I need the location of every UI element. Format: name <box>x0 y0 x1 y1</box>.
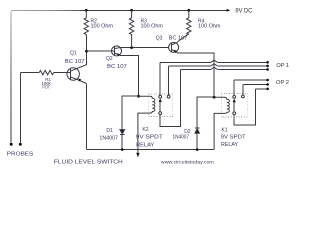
wire K2 common to OP1 line 3 <box>160 69 180 126</box>
probe 1 tip <box>10 143 13 146</box>
OP1 terminal dots <box>266 61 269 64</box>
transistor Q1 BC107 <box>67 65 87 84</box>
svg-text:Q2: Q2 <box>106 56 113 62</box>
probe 2 tip <box>19 143 22 146</box>
svg-text:9V SPDT: 9V SPDT <box>221 134 246 140</box>
relay K1 contact circles <box>233 96 236 99</box>
relay K2 contact risers to OP1 <box>159 62 161 95</box>
diode D2 1N4007 <box>195 97 214 149</box>
wire R1 to Q1 base <box>54 72 71 74</box>
node R3 bottom junction <box>130 46 133 49</box>
relay K2 common contact circle <box>159 112 162 115</box>
svg-text:www.circuitstoday.com: www.circuitstoday.com <box>161 159 214 164</box>
svg-text:Q3: Q3 <box>156 36 163 42</box>
relay K1 armature <box>233 101 235 112</box>
svg-text:BC 107: BC 107 <box>107 64 127 70</box>
wire R2 to Q1 collector <box>85 36 87 65</box>
resistor R3 100 Ohm <box>129 10 133 47</box>
resistor R2 100 Ohm <box>84 10 88 35</box>
node K2 coil top junction <box>137 95 140 98</box>
relay K1 coil <box>214 97 229 149</box>
wire left frame / probe 1 <box>10 13 12 143</box>
relay K2 coil <box>138 96 155 153</box>
node K1 coil top junction <box>213 96 216 99</box>
relay K2 contact circles <box>159 95 162 98</box>
svg-text:POT: POT <box>42 84 50 89</box>
ground arrow (negative lead) <box>136 153 139 158</box>
svg-text:1N4007: 1N4007 <box>173 135 190 141</box>
svg-text:1N4007: 1N4007 <box>99 135 118 141</box>
node Q2 base junction <box>85 50 88 53</box>
resistor R1 100K POT <box>39 70 54 74</box>
relay K1 dashed case <box>221 93 247 117</box>
node D2 bottom junction <box>196 148 199 151</box>
svg-text:9V SPDT: 9V SPDT <box>136 135 163 141</box>
relay K2 armature <box>159 101 161 112</box>
wire K1 common to OP2 line 3 <box>234 89 255 125</box>
wire node to Q2 base <box>87 50 115 52</box>
wire bottom negative rail <box>87 149 215 151</box>
relay K2 dashed case <box>148 94 173 116</box>
wire OP1 line 3 with hop <box>180 68 266 70</box>
wire probe 2 riser <box>19 73 21 143</box>
node D1 bottom junction <box>121 148 124 151</box>
svg-text:OP 2: OP 2 <box>276 80 289 86</box>
svg-text:9V DC: 9V DC <box>235 7 252 14</box>
svg-text:100 Ohm: 100 Ohm <box>141 24 164 30</box>
node R4 top junction <box>187 9 190 12</box>
OP2 terminal dots <box>266 79 269 82</box>
wire probe2 to R1 <box>20 72 39 74</box>
wire OP2 line 1 <box>234 79 266 81</box>
svg-text:Q1: Q1 <box>70 50 77 56</box>
label R1 100K POT <box>42 77 52 89</box>
svg-text:PROBES: PROBES <box>7 152 34 158</box>
svg-text:K1: K1 <box>221 128 227 134</box>
diode D1 1N4007 <box>120 96 139 149</box>
wire Q3 emitter down <box>178 53 215 97</box>
svg-text:D1: D1 <box>106 128 113 134</box>
transistor Q3 BC107 <box>169 42 179 53</box>
wire OP1 line 1 with hop <box>160 61 266 63</box>
wire R4 to Q3 collector <box>177 34 189 43</box>
9V DC terminal arrow <box>227 9 231 12</box>
svg-text:100 Ohm: 100 Ohm <box>91 24 114 30</box>
wire Q2 collector to Q3 base <box>120 47 169 49</box>
svg-text:RELAY: RELAY <box>221 142 239 148</box>
svg-text:OP 1: OP 1 <box>276 63 289 69</box>
wire top 9V rail <box>11 10 80 13</box>
svg-text:100 Ohm: 100 Ohm <box>198 24 221 30</box>
relay K1 contact risers to OP2 <box>233 80 235 95</box>
svg-text:RELAY: RELAY <box>136 142 155 148</box>
resistor R4 100 Ohm <box>187 10 191 34</box>
node R2 top junction <box>85 9 88 12</box>
wire OP2 line 2 <box>243 83 267 85</box>
wire Q1 emitter down to bottom rail <box>86 83 88 149</box>
wire OP1 line 2 with hop <box>169 65 267 67</box>
wire OP2 line 3 <box>255 88 266 90</box>
wire Q2 emitter to relay K2 <box>121 56 139 97</box>
node R3 top junction <box>130 9 133 12</box>
svg-text:FLUID LEVEL SWITCH: FLUID LEVEL SWITCH <box>54 159 123 165</box>
transistor Q2 BC107 <box>112 46 122 57</box>
svg-text:K2: K2 <box>142 127 148 133</box>
svg-text:BC 107: BC 107 <box>65 59 85 65</box>
relay K1 common contact circle <box>233 112 236 115</box>
